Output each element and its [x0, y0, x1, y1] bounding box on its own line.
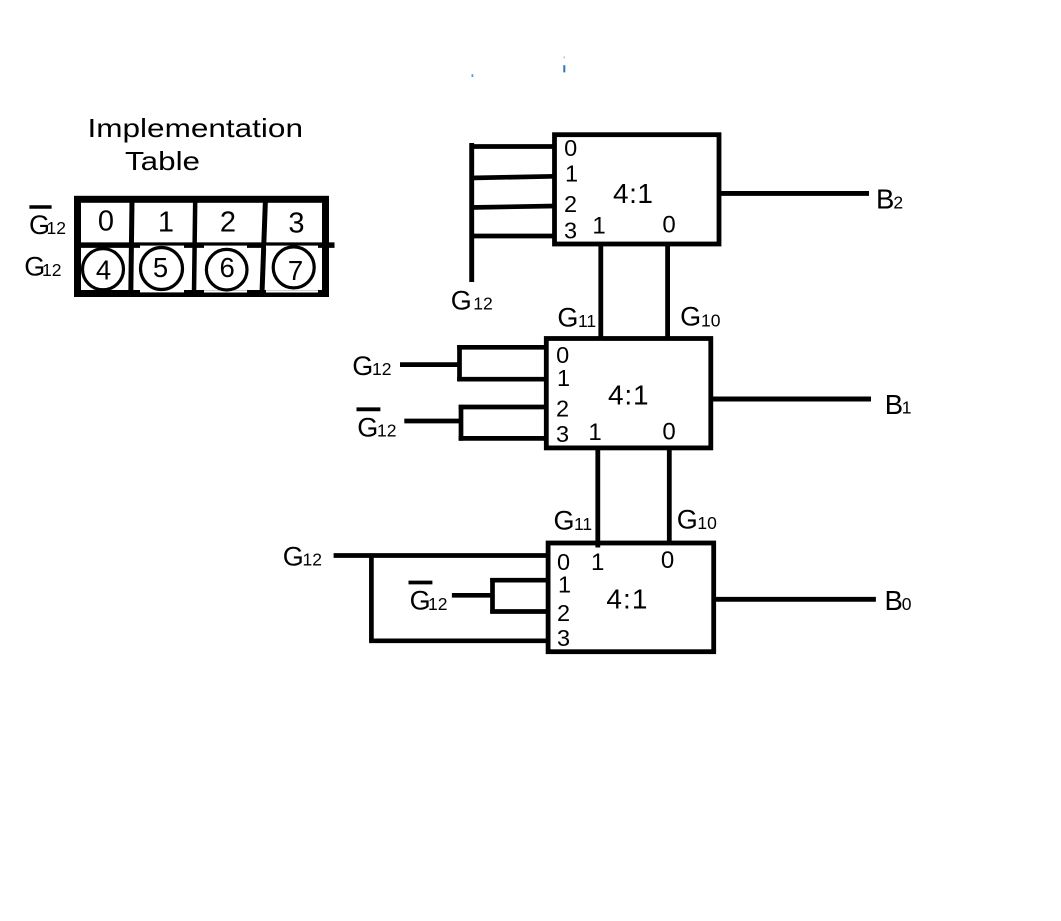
svg-text:3: 3 [557, 625, 570, 651]
svg-text:2: 2 [556, 396, 569, 422]
svg-text:Implementation: Implementation [88, 113, 304, 143]
svg-text:4:1: 4:1 [608, 380, 649, 411]
svg-text:2: 2 [220, 207, 236, 239]
svg-text:0: 0 [98, 206, 114, 238]
svg-text:12: 12 [47, 218, 66, 238]
mux U3 box (bottom 4:1) [548, 543, 714, 652]
U1 input wire 3 [470, 234, 555, 239]
svg-text:1: 1 [592, 212, 605, 239]
U3 G12-bar bracket vertical [490, 578, 495, 614]
U3 G12 branch wire to pin 3 [369, 638, 548, 643]
circled 5 [141, 248, 183, 290]
U2 select wire right (G10) [667, 448, 672, 545]
svg-text:1: 1 [902, 398, 912, 418]
white notches over row divider [140, 246, 184, 249]
table row divider [75, 242, 335, 248]
svg-text:B: B [885, 389, 903, 420]
U2 bracket B wire to pin 2 [459, 405, 547, 410]
table column divider 2 [194, 201, 195, 293]
circled 7 [273, 247, 314, 288]
U2 G12-bar stub wire [404, 419, 461, 424]
circled 6 [206, 249, 247, 290]
U2 G12 stub wire [400, 362, 460, 367]
table column divider 3 [262, 201, 265, 293]
U2 bracket A wire to pin 0 [457, 345, 546, 350]
table column divider 1 [131, 201, 132, 293]
svg-text:3: 3 [564, 217, 577, 243]
U3 G12 branch vertical [369, 556, 374, 641]
svg-text:B: B [885, 585, 903, 616]
svg-text:G: G [451, 286, 472, 316]
white notches over bottom border [140, 290, 184, 293]
svg-text:1: 1 [557, 365, 570, 391]
svg-text:12: 12 [428, 594, 447, 614]
U3 G12 input wire top [334, 553, 548, 558]
U3 bracket wire to pin 2 [490, 609, 548, 614]
svg-text:6: 6 [220, 252, 235, 283]
svg-text:11: 11 [578, 311, 596, 331]
U2 output wire [711, 397, 871, 402]
svg-text:1: 1 [591, 549, 604, 576]
blue speck right [563, 65, 565, 72]
U1 input wire 2 [470, 206, 555, 208]
svg-text:5: 5 [153, 252, 168, 283]
U3 bracket wire to pin 1 [490, 578, 548, 583]
svg-text:3: 3 [288, 208, 304, 240]
U1 input wire 0 [470, 144, 555, 149]
svg-text:2: 2 [893, 193, 903, 213]
svg-text:0: 0 [564, 135, 577, 161]
U3 output wire [714, 597, 876, 602]
svg-text:G: G [557, 302, 578, 332]
svg-text:G: G [677, 505, 698, 535]
svg-text:4: 4 [96, 254, 111, 285]
U1 input wire 1 [470, 176, 555, 178]
svg-text:10: 10 [697, 513, 717, 533]
U2 input bracket A vertical [457, 345, 462, 381]
circled 4 [83, 249, 124, 290]
svg-text:G: G [680, 301, 701, 331]
U2 bracket A wire to pin 1 [457, 377, 546, 382]
svg-text:Table: Table [125, 146, 200, 176]
blue speck left [472, 74, 474, 77]
U2 select wire left (G11) [595, 448, 600, 548]
svg-text:10: 10 [701, 310, 721, 330]
svg-text:G: G [357, 412, 378, 442]
svg-text:0: 0 [662, 418, 675, 445]
svg-text:B: B [876, 184, 894, 215]
svg-text:12: 12 [42, 260, 61, 280]
svg-text:3: 3 [556, 421, 569, 447]
svg-text:7: 7 [288, 255, 303, 286]
U2 bracket B wire to pin 3 [459, 436, 547, 441]
svg-text:0: 0 [902, 594, 912, 614]
svg-text:1: 1 [588, 419, 601, 446]
U2 input bracket B vertical [459, 405, 464, 441]
svg-text:G: G [554, 506, 575, 536]
svg-text:12: 12 [473, 294, 492, 314]
svg-text:12: 12 [303, 549, 322, 569]
svg-text:4:1: 4:1 [606, 583, 647, 614]
svg-text:4:1: 4:1 [613, 178, 653, 209]
svg-text:12: 12 [372, 359, 391, 379]
svg-text:G: G [352, 351, 373, 381]
svg-text:G: G [283, 541, 304, 571]
U3 G12-bar stub wire [452, 593, 493, 598]
svg-text:0: 0 [662, 211, 675, 238]
U1 input bus vertical (G12) [469, 143, 474, 282]
implementation table frame [78, 199, 326, 293]
svg-text:2: 2 [557, 600, 570, 626]
U1 output wire [719, 191, 869, 196]
svg-text:1: 1 [565, 160, 578, 186]
svg-text:0: 0 [661, 547, 674, 574]
U1 select wire right (G10) [665, 244, 670, 340]
mux U2 box (middle 4:1) [546, 339, 711, 448]
svg-text:12: 12 [377, 420, 396, 440]
svg-text:2: 2 [564, 191, 577, 217]
U1 select wire left (G11) [598, 244, 603, 340]
svg-text:1: 1 [558, 571, 571, 597]
mux U1 box (top 4:1) [555, 135, 720, 244]
svg-text:1: 1 [158, 207, 174, 239]
svg-text:11: 11 [574, 514, 592, 534]
